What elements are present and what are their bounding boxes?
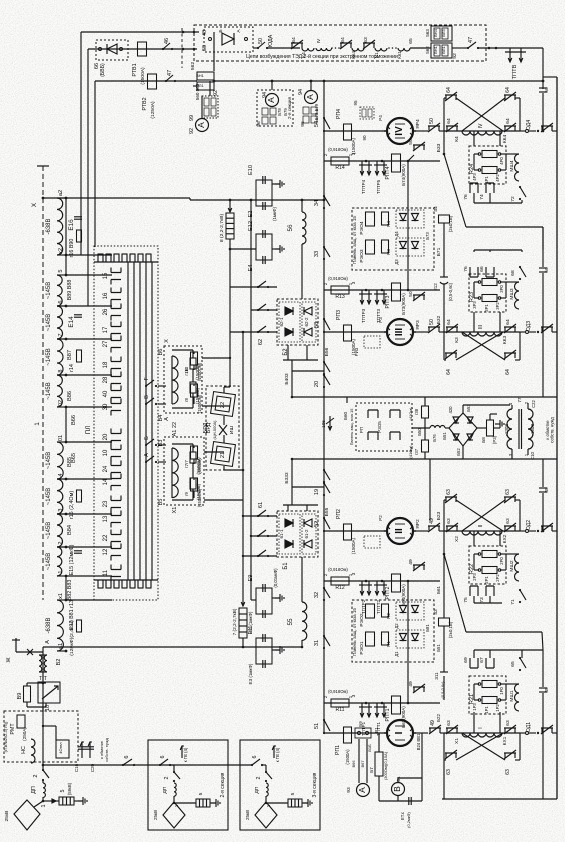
svg-text:2Р0: 2Р0: [499, 557, 504, 565]
svg-text:28: 28: [103, 376, 109, 383]
svg-text:К3: К3: [454, 337, 460, 343]
svg-text:50: 50: [544, 87, 550, 93]
svg-text:31: 31: [314, 640, 320, 646]
svg-text:64: 64: [340, 37, 346, 43]
svg-text:Е9: Е9: [248, 575, 254, 582]
svg-text:КХ2: КХ2: [502, 534, 508, 543]
svg-text:55: 55: [287, 618, 294, 626]
svg-text:50: 50: [408, 139, 414, 145]
svg-text:ЕТ.с: ЕТ.с: [400, 811, 405, 820]
svg-text:РПТ4: РПТ4: [385, 166, 391, 179]
svg-text:С10: С10: [530, 451, 535, 459]
svg-text:Панель защ. от юза 15: Панель защ. от юза 15: [352, 216, 357, 264]
svg-text:Б56: Б56: [324, 347, 330, 356]
svg-text:Б74(900А): Б74(900А): [401, 164, 406, 186]
svg-text:Х2: Х2: [454, 536, 460, 542]
svg-text:40: 40: [103, 390, 109, 397]
svg-text:А: А: [45, 640, 51, 644]
svg-text:r15 (2,4Ом): r15 (2,4Ом): [69, 491, 75, 519]
svg-text:В: В: [392, 786, 402, 792]
svg-text:РП1: РП1: [335, 745, 341, 755]
svg-text:32: 32: [314, 592, 320, 598]
svg-text:63: 63: [505, 489, 511, 495]
svg-text:Х1: Х1: [454, 738, 460, 744]
svg-text:(0,918Ом): (0,918Ом): [328, 689, 348, 694]
svg-text:МШ1: МШ1: [509, 690, 515, 701]
svg-text:49: 49: [544, 487, 550, 493]
svg-text:Б1: Б1: [283, 562, 289, 570]
svg-text:92: 92: [452, 53, 458, 59]
svg-text:Р3О5: Р3О5: [377, 421, 382, 433]
svg-text:В: В: [144, 395, 150, 399]
svg-text:ОД1: ОД1: [526, 722, 532, 732]
svg-text:2: 2: [33, 774, 39, 777]
svg-text:Р3: Р3: [378, 317, 383, 323]
svg-text:РП: РП: [359, 427, 364, 433]
svg-text:50: 50: [429, 118, 435, 124]
svg-text:(1500Ом): (1500Ом): [197, 488, 202, 507]
svg-text:А: А: [196, 122, 206, 128]
svg-text:52: 52: [314, 521, 320, 527]
svg-text:3Р3: 3Р3: [472, 301, 477, 309]
svg-text:Б: Б: [218, 29, 224, 32]
svg-text:61: 61: [258, 502, 264, 508]
svg-text:r8: r8: [184, 397, 189, 401]
svg-text:I: I: [394, 731, 405, 734]
svg-text:к ГВ (4): к ГВ (4): [183, 747, 188, 762]
svg-text:Б22: Б22: [436, 714, 441, 722]
svg-text:Е11: Е11: [248, 625, 254, 634]
svg-text:(2±0,1В): (2±0,1В): [448, 215, 453, 232]
svg-text:В6: В6: [158, 349, 164, 356]
svg-text:64: 64: [446, 87, 452, 93]
svg-text:(41Ом): (41Ом): [408, 407, 413, 421]
svg-text:4Р2: 4Р2: [495, 174, 500, 182]
svg-text:(1250А): (1250А): [150, 101, 156, 119]
svg-text:РПТ3: РПТ3: [385, 295, 391, 308]
svg-text:r9: r9: [184, 491, 189, 495]
svg-text:МШ4: МШ4: [509, 160, 515, 171]
svg-text:А: А: [357, 787, 367, 793]
svg-text:(0,5-0,6с): (0,5-0,6с): [448, 282, 453, 301]
svg-text:РТВ1: РТВ1: [132, 63, 138, 76]
svg-text:ВН1: ВН1: [433, 45, 438, 54]
svg-text:ТПТТ2: ТПТТ2: [376, 599, 381, 614]
svg-text:В87: В87: [67, 350, 73, 360]
svg-text:IV: IV: [478, 123, 484, 128]
svg-text:ВН1: ВН1: [196, 73, 205, 78]
svg-text:44: 44: [433, 206, 439, 212]
svg-text:РП4: РП4: [336, 109, 342, 119]
svg-text:4Отвл: 4Отвл: [58, 742, 63, 754]
svg-text:17: 17: [103, 326, 109, 333]
svg-text:ПЛ: ПЛ: [85, 426, 92, 435]
svg-text:а2: а2: [58, 190, 64, 196]
svg-text:99: 99: [189, 115, 195, 121]
svg-text:69: 69: [463, 657, 469, 663]
svg-text:РП3: РП3: [336, 310, 342, 320]
svg-text:25кВ: 25кВ: [153, 810, 158, 820]
svg-text:18: 18: [103, 361, 109, 368]
svg-text:(Л.В№292-3(Т6)): (Л.В№292-3(Т6)): [3, 721, 8, 752]
svg-text:15: 15: [103, 272, 109, 279]
svg-text:(1500м): (1500м): [197, 458, 202, 474]
svg-text:(2±0,1В): (2±0,1В): [448, 621, 453, 638]
svg-text:21: 21: [220, 452, 226, 458]
svg-text:а1: а1: [58, 643, 64, 649]
svg-text:1: 1: [266, 804, 272, 807]
svg-text:5: 5: [198, 792, 204, 795]
svg-text:25кВ: 25кВ: [245, 810, 250, 820]
svg-text:ЯР2: ЯР2: [415, 519, 421, 529]
svg-text:16: 16: [103, 292, 109, 299]
svg-text:62-2: 62-2: [304, 317, 309, 327]
svg-text:(1500Ом): (1500Ом): [197, 394, 202, 413]
svg-text:А: А: [164, 417, 170, 421]
svg-text:50: 50: [258, 38, 264, 44]
svg-text:Е10: Е10: [248, 165, 254, 175]
svg-text:72: 72: [510, 196, 516, 202]
svg-text:Р4: Р4: [378, 115, 383, 121]
svg-text:ОД3: ОД3: [526, 321, 532, 331]
svg-text:64: 64: [505, 87, 511, 93]
svg-text:48: 48: [202, 30, 208, 36]
svg-text:27: 27: [103, 340, 109, 347]
svg-text:22: 22: [103, 534, 109, 541]
svg-text:~380В: ~380В: [530, 424, 535, 437]
svg-text:х1: х1: [58, 593, 64, 599]
svg-text:(0,01мкФ): (0,01мкФ): [273, 568, 278, 588]
svg-text:75: 75: [463, 597, 469, 603]
svg-text:4: 4: [58, 473, 64, 476]
svg-text:25кВ: 25кВ: [4, 810, 10, 822]
svg-text:ТПТР3: ТПТР3: [361, 308, 366, 323]
svg-text:6: 6: [124, 755, 130, 758]
svg-text:Б78 Б79: Б78 Б79: [314, 103, 319, 120]
svg-text:7: 7: [58, 333, 64, 336]
svg-text:ДП: ДП: [254, 786, 260, 793]
svg-text:ДП: ДП: [162, 786, 168, 793]
svg-text:к ГВ (4): к ГВ (4): [275, 747, 280, 762]
svg-text:2Р1: 2Р1: [484, 576, 489, 584]
svg-text:63: 63: [446, 518, 452, 524]
svg-text:3Р2: 3Р2: [495, 302, 500, 310]
svg-text:В24 ВВ1: В24 ВВ1: [416, 733, 421, 750]
svg-text:1: 1: [41, 805, 47, 808]
svg-text:Х1: Х1: [172, 507, 178, 514]
svg-text:96: 96: [256, 121, 262, 127]
svg-text:~145В: ~145В: [46, 382, 52, 399]
svg-text:(0,918Ом): (0,918Ом): [328, 147, 348, 152]
svg-text:53: 53: [314, 322, 320, 328]
svg-text:r14: r14: [69, 364, 75, 372]
svg-text:(БВБ): (БВБ): [100, 63, 106, 77]
svg-text:4Р0: 4Р0: [499, 157, 504, 165]
svg-text:10: 10: [103, 449, 109, 456]
svg-text:67: 67: [479, 657, 485, 663]
svg-text:В89 В88: В89 В88: [67, 280, 73, 301]
svg-text:-638В: -638В: [46, 219, 52, 235]
svg-text:Б333: Б333: [284, 472, 290, 484]
svg-text:МШ3: МШ3: [509, 288, 515, 299]
svg-text:~145В: ~145В: [46, 314, 52, 331]
svg-text:РМТ: РМТ: [10, 723, 16, 735]
svg-text:6: 6: [58, 300, 64, 303]
svg-text:2: 2: [256, 777, 262, 780]
svg-text:КК3: КК3: [502, 336, 508, 345]
svg-text:II: II: [394, 528, 405, 534]
svg-text:(0,918Ом): (0,918Ом): [328, 276, 348, 281]
svg-text:71: 71: [510, 599, 516, 605]
svg-text:Б32: Б32: [436, 315, 442, 324]
svg-text:50: 50: [408, 291, 414, 297]
svg-text:ИШ: ИШ: [229, 425, 235, 434]
svg-text:~145В: ~145В: [46, 348, 52, 365]
svg-text:420: 420: [448, 406, 453, 414]
svg-text:Б61: Б61: [436, 586, 441, 594]
svg-text:ВЛ3: ВЛ3: [441, 29, 446, 37]
svg-text:1: 1: [34, 422, 41, 426]
svg-text:63: 63: [446, 489, 452, 495]
svg-text:А1: А1: [172, 430, 178, 437]
svg-text:63: 63: [505, 769, 511, 775]
svg-text:(1500А): (1500А): [345, 749, 350, 765]
svg-text:13: 13: [103, 515, 109, 522]
svg-text:ЮДА: ЮДА: [268, 34, 274, 47]
svg-text:Б71: Б71: [436, 247, 442, 256]
svg-text:(РЗ): (РЗ): [492, 435, 497, 444]
svg-text:2-я секция: 2-я секция: [287, 96, 292, 119]
svg-text:(41Ом): (41Ом): [408, 445, 413, 459]
svg-text:Б51: Б51: [442, 432, 447, 440]
svg-text:Б9: Б9: [358, 721, 363, 727]
svg-text:В67: В67: [360, 760, 365, 767]
svg-text:5: 5: [60, 790, 66, 793]
svg-text:63: 63: [505, 518, 511, 524]
svg-text:К4: К4: [454, 136, 460, 142]
svg-text:20: 20: [103, 433, 109, 440]
svg-text:В85: В85: [67, 457, 73, 467]
svg-text:50: 50: [429, 319, 435, 325]
svg-text:R14: R14: [335, 165, 345, 171]
svg-text:РЭО3: РЭО3: [359, 249, 365, 262]
svg-text:R1: R1: [386, 641, 391, 647]
svg-text:РЭО2: РЭО2: [359, 613, 365, 626]
svg-text:РПТ1: РПТ1: [385, 708, 391, 721]
svg-text:ДП: ДП: [31, 786, 37, 794]
svg-text:24: 24: [103, 465, 109, 472]
svg-text:~145В: ~145В: [46, 452, 52, 469]
svg-text:R12: R12: [335, 585, 345, 591]
svg-text:47: 47: [468, 37, 474, 43]
svg-text:2-я секция: 2-я секция: [220, 772, 226, 797]
svg-text:Р2: Р2: [378, 515, 383, 521]
svg-text:ВН4: ВН4: [433, 28, 438, 37]
svg-text:33: 33: [314, 251, 320, 257]
svg-text:Панель защ. от юза 15: Панель защ. от юза 15: [352, 608, 357, 656]
svg-text:1Р3: 1Р3: [472, 703, 477, 711]
svg-text:В1Б: В1Б: [367, 744, 372, 752]
svg-text:Д1: Д1: [394, 651, 399, 657]
svg-text:r16 В90: r16 В90: [69, 239, 75, 258]
svg-text:3Р0: 3Р0: [499, 285, 504, 293]
svg-text:Б403: Б403: [284, 373, 290, 385]
svg-text:56: 56: [287, 224, 294, 232]
svg-text:Е15 (12мкФ): Е15 (12мкФ): [69, 544, 75, 575]
svg-text:49: 49: [408, 681, 414, 687]
svg-text:(58кВ): (58кВ): [67, 782, 72, 795]
svg-text:Б51: Б51: [436, 644, 441, 652]
svg-text:r37: r37: [414, 448, 419, 455]
svg-text:46: 46: [164, 38, 170, 44]
svg-text:РП2: РП2: [336, 509, 342, 519]
svg-text:34: 34: [314, 200, 320, 206]
svg-text:IV: IV: [394, 126, 405, 136]
svg-text:1Р2: 1Р2: [495, 704, 500, 712]
svg-text:3-я секция: 3-я секция: [312, 772, 318, 797]
svg-text:(0,918Ом): (0,918Ом): [328, 567, 348, 572]
svg-text:22: 22: [172, 422, 178, 428]
svg-text:Б73: Б73: [425, 232, 430, 240]
svg-text:3Р1: 3Р1: [484, 304, 489, 312]
svg-text:11: 11: [103, 569, 109, 576]
svg-text:2Р3: 2Р3: [472, 573, 477, 581]
svg-text:26: 26: [103, 308, 109, 315]
svg-text:(300Ом)(0,15А): (300Ом)(0,15А): [383, 751, 388, 780]
svg-text:64: 64: [505, 319, 511, 325]
svg-text:Цепи возбуждения ТЭД 2-й секци: Цепи возбуждения ТЭД 2-й секции при экст…: [246, 53, 398, 60]
svg-text:76: 76: [463, 194, 469, 200]
svg-text:III: III: [478, 325, 484, 329]
svg-text:20: 20: [314, 381, 320, 387]
svg-text:(1500А): (1500А): [351, 137, 356, 154]
svg-text:62: 62: [258, 339, 264, 345]
svg-text:5: 5: [290, 792, 296, 795]
svg-text:~145В: ~145В: [46, 488, 52, 505]
svg-text:Д4: Д4: [394, 231, 399, 237]
svg-text:63: 63: [446, 720, 452, 726]
svg-text:66: 66: [479, 266, 485, 272]
svg-text:77: 77: [517, 397, 522, 403]
svg-text:Б63(900А): Б63(900А): [401, 706, 406, 728]
svg-text:РТВ2: РТВ2: [142, 97, 148, 110]
svg-text:Е3 (1мкФ): Е3 (1мкФ): [248, 663, 253, 684]
svg-text:562: 562: [190, 62, 196, 71]
svg-text:(250А): (250А): [22, 727, 27, 741]
svg-text:90: 90: [362, 135, 367, 141]
svg-text:r7: r7: [184, 459, 189, 463]
svg-text:R4: R4: [386, 221, 391, 227]
svg-text:Д3: Д3: [394, 259, 399, 265]
svg-text:2Р2: 2Р2: [495, 574, 500, 582]
svg-text:2: 2: [164, 777, 170, 780]
svg-text:С22: С22: [531, 399, 536, 407]
svg-text:64: 64: [505, 369, 511, 375]
svg-text:30: 30: [103, 403, 109, 410]
svg-text:~145В: ~145В: [46, 553, 52, 570]
svg-text:92: 92: [189, 128, 195, 134]
svg-text:В2: В2: [56, 659, 62, 666]
svg-text:Б64(900А): Б64(900А): [401, 584, 406, 606]
svg-text:1Р0: 1Р0: [499, 687, 504, 695]
svg-text:В86: В86: [67, 391, 73, 401]
svg-text:РЭО4: РЭО4: [359, 221, 365, 234]
svg-text:(1500А): (1500А): [351, 537, 356, 554]
svg-text:Б7: Б7: [369, 767, 374, 773]
svg-text:6: 6: [160, 756, 166, 759]
svg-text:ЯР3: ЯР3: [415, 320, 421, 330]
svg-text:Б52: Б52: [456, 448, 461, 456]
svg-text:65: 65: [408, 38, 414, 44]
svg-text:4Р3: 4Р3: [472, 173, 477, 181]
svg-text:1: 1: [58, 570, 64, 573]
svg-text:III: III: [394, 328, 405, 337]
svg-text:(1500А): (1500А): [140, 67, 146, 85]
svg-text:Б73(900А): Б73(900А): [401, 293, 406, 315]
svg-text:ТПТР4: ТПТР4: [361, 179, 366, 194]
svg-text:2: 2: [58, 541, 64, 544]
svg-text:(12мкФ)(2,4Ом): (12мкФ)(2,4Ом): [69, 620, 75, 656]
svg-text:В66: В66: [71, 415, 77, 425]
svg-text:64: 64: [446, 118, 452, 124]
svg-text:З11: З11: [434, 672, 439, 680]
svg-text:22: 22: [220, 402, 226, 408]
svg-text:В4: В4: [158, 415, 164, 422]
svg-text:Д2: Д2: [394, 623, 399, 629]
svg-text:R3: R3: [386, 249, 391, 255]
svg-text:R13: R13: [335, 294, 345, 300]
svg-text:R2: R2: [386, 613, 391, 619]
svg-text:РЭО1: РЭО1: [359, 641, 365, 654]
svg-text:РИЗ: РИЗ: [354, 347, 359, 356]
svg-text:63: 63: [505, 720, 511, 726]
svg-text:64: 64: [505, 118, 511, 124]
svg-text:12: 12: [103, 548, 109, 555]
svg-text:50: 50: [544, 267, 550, 273]
svg-text:R11: R11: [336, 707, 345, 713]
svg-text:14: 14: [103, 478, 109, 485]
svg-text:Б: Б: [144, 436, 150, 440]
svg-text:560 563: 560 563: [195, 83, 200, 100]
svg-text:Т Т: Т Т: [39, 676, 47, 682]
svg-text:02: 02: [58, 400, 64, 406]
svg-text:МШ2: МШ2: [509, 560, 515, 571]
svg-text:I: I: [478, 727, 484, 728]
svg-text:(1мкФ): (1мкФ): [272, 206, 277, 221]
svg-text:51: 51: [314, 723, 320, 729]
svg-text:Б60: Б60: [343, 412, 348, 420]
svg-text:Г: Г: [144, 377, 150, 380]
svg-text:50: 50: [202, 45, 208, 51]
svg-text:74: 74: [479, 194, 485, 200]
svg-text:IV: IV: [316, 38, 322, 43]
svg-text:х2: х2: [58, 248, 64, 254]
svg-text:76: 76: [463, 266, 469, 272]
svg-text:Б8: Б8: [481, 437, 486, 443]
svg-text:~145В: ~145В: [46, 522, 52, 539]
svg-text:~230В: ~230В: [504, 424, 509, 437]
svg-text:3: 3: [58, 508, 64, 511]
svg-text:В84: В84: [67, 525, 73, 535]
svg-text:73: 73: [479, 597, 485, 603]
svg-text:ТПТВ: ТПТВ: [512, 64, 518, 79]
svg-text:563: 563: [425, 29, 430, 37]
svg-text:А: А: [305, 94, 315, 100]
svg-text:Б81: Б81: [425, 624, 430, 632]
svg-text:II: II: [478, 525, 484, 528]
svg-text:Б76: Б76: [432, 434, 437, 442]
svg-text:Х: Х: [31, 202, 38, 207]
